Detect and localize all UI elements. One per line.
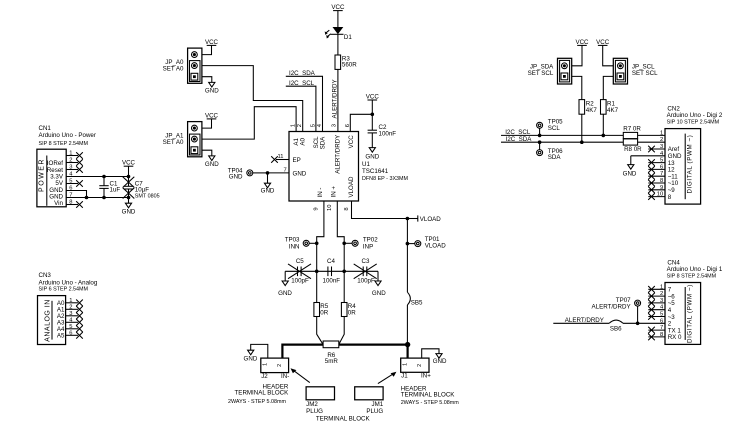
power VCC above JP_A0 <box>205 39 219 46</box>
svg-text:DFN8 EP - 3X3MM: DFN8 EP - 3X3MM <box>362 176 409 182</box>
svg-text:560R: 560R <box>342 62 357 69</box>
svg-text:9: 9 <box>313 207 319 210</box>
resistor R5 <box>314 303 329 317</box>
capacitor C4 <box>323 258 341 285</box>
wire R3 to U1 pin3 (ALERT/DRDY) <box>337 69 339 131</box>
wire VLOAD down to SB5 <box>406 219 408 293</box>
wire R4 to R6 right (kelvin) <box>339 317 344 345</box>
ground below C7 <box>122 198 136 216</box>
wire thick rail left of R6 <box>282 345 323 359</box>
CN3 pin 6 <box>66 331 83 339</box>
net label I2C_SCL (left) <box>286 80 316 132</box>
svg-text:PLUG: PLUG <box>306 408 323 415</box>
node U1 GND junction <box>266 171 270 175</box>
CN4 pin 4 <box>648 305 665 313</box>
J2 annotation text <box>228 383 289 405</box>
svg-text:VCC: VCC <box>348 135 355 149</box>
node VLOAD junction <box>406 217 410 221</box>
op-amp U1 body <box>289 132 409 202</box>
arrow JM1 to J1 <box>378 372 397 384</box>
svg-text:5: 5 <box>310 124 316 127</box>
CN4 pin 8 <box>648 332 665 340</box>
svg-text:D1: D1 <box>344 34 352 41</box>
svg-text:I2C_SCL: I2C_SCL <box>505 129 531 136</box>
svg-text:GND: GND <box>623 170 637 177</box>
svg-text:VCC: VCC <box>575 39 589 46</box>
test point TP03 <box>285 237 317 251</box>
svg-text:IN -: IN - <box>317 188 324 198</box>
CN1 pin 3 <box>66 165 83 173</box>
node TP05 junction <box>538 134 542 138</box>
svg-text:10µF: 10µF <box>135 186 149 193</box>
wire VCC to JP_A1 pin1 <box>202 119 212 128</box>
resistor R3 <box>335 55 357 69</box>
svg-text:IORef: IORef <box>47 160 63 167</box>
node TP06 junction <box>538 140 542 144</box>
node thick junction at J1 <box>405 342 410 347</box>
svg-text:2WAYS - STEP 5.08mm: 2WAYS - STEP 5.08mm <box>228 399 287 405</box>
node GND/C7 junction <box>127 196 131 200</box>
svg-text:4K7: 4K7 <box>586 107 598 114</box>
node TP01 junction <box>406 242 410 246</box>
wire D1 to R3 <box>337 34 339 55</box>
test point TP06 <box>537 142 564 161</box>
CN4 pin 2 <box>648 291 665 299</box>
svg-text:0R: 0R <box>348 310 356 317</box>
node TP02 junction <box>342 242 346 246</box>
wire JP_A0 pin3 to ground <box>202 77 212 83</box>
svg-text:J2: J2 <box>261 373 268 380</box>
svg-text:J1: J1 <box>401 373 408 380</box>
U1 pin 3 ALERT/DRDY <box>331 124 341 174</box>
connector CN2 title <box>667 105 723 125</box>
U1 pin 7 GND <box>268 168 307 178</box>
svg-text:SB6: SB6 <box>610 326 622 333</box>
svg-text:GND: GND <box>293 170 307 177</box>
svg-text:C4: C4 <box>327 258 335 265</box>
connector CN4 title <box>667 259 723 279</box>
svg-text:GND: GND <box>433 358 447 365</box>
wire CN1 pin6 jog to GND rail <box>66 191 86 198</box>
CN3 pin 5 <box>66 324 83 332</box>
capacitor C7 (not fitted) <box>123 177 160 200</box>
connector CN3 title <box>39 272 98 292</box>
svg-text:2: 2 <box>277 364 283 367</box>
ground below U1 GND pin <box>261 173 275 195</box>
svg-text:DIGITAL (PWM ~): DIGITAL (PWM ~) <box>687 284 694 343</box>
test point TP07 <box>592 297 641 323</box>
svg-text:R8 0R: R8 0R <box>624 146 642 153</box>
test point TP05 <box>537 118 564 135</box>
svg-text:IN-: IN- <box>281 373 289 380</box>
CN2 pin 6 <box>648 164 665 172</box>
svg-text:VCC: VCC <box>331 4 345 11</box>
CN1 pin 2 <box>66 158 83 166</box>
wire JP_SDA pin2 to R2 <box>572 76 582 99</box>
CN4 pin 7 <box>648 325 665 333</box>
svg-text:RX 0: RX 0 <box>668 334 682 341</box>
svg-text:A0: A0 <box>300 137 307 145</box>
connector CN1 title <box>39 125 96 147</box>
svg-text:SET SCL: SET SCL <box>632 70 658 77</box>
wire J2 pin1 to ground <box>251 344 268 358</box>
U1 pin 4 SDA <box>317 123 327 149</box>
svg-text:VCC: VCC <box>122 160 136 167</box>
svg-text:1: 1 <box>263 363 269 366</box>
svg-text:100pF: 100pF <box>291 278 309 285</box>
svg-text:TERMINAL BLOCK: TERMINAL BLOCK <box>401 392 456 399</box>
power VCC symbol above C7 <box>122 160 136 177</box>
capacitor C1 <box>99 177 120 198</box>
node 3.3V/C1 junction <box>102 175 106 179</box>
wire 3.3V rail from CN1 pin4 <box>66 176 128 178</box>
wire U1 VLOAD to the right <box>352 201 408 219</box>
svg-text:TERMINAL BLOCK: TERMINAL BLOCK <box>235 390 290 397</box>
node VCC/C2 junction <box>371 113 375 117</box>
svg-text:SDA: SDA <box>548 154 562 161</box>
wire SB5 to thick junction <box>406 305 408 345</box>
LED D1 <box>325 27 353 41</box>
jumper JP_A0 body <box>163 48 202 83</box>
svg-text:GND: GND <box>365 153 379 160</box>
ground left of C5 <box>278 271 292 297</box>
CN1 pin 7 <box>69 193 72 199</box>
power VCC right of U1 <box>366 93 380 100</box>
wire I2C_SDA bus <box>501 141 623 143</box>
capacitor C2 <box>368 114 397 147</box>
shunt resistor R6 <box>323 341 339 365</box>
svg-text:2: 2 <box>417 364 423 367</box>
node pin6/pin7 junction <box>85 196 89 200</box>
svg-text:SCL: SCL <box>548 125 561 132</box>
CN2 pin 1 <box>660 130 663 136</box>
U1 pin 6 VCC <box>345 124 355 148</box>
svg-text:JM2: JM2 <box>306 401 318 408</box>
svg-text:100pF: 100pF <box>357 278 375 285</box>
capacitor C5 (not fitted) <box>288 258 311 285</box>
wire VCC to JP_SDA pin1 <box>572 45 582 65</box>
svg-text:DIGITAL (PWM ~): DIGITAL (PWM ~) <box>687 135 694 194</box>
ground below C2 <box>365 148 379 161</box>
wire thick rail right of R6 <box>339 344 408 346</box>
connector CN1 body <box>37 149 66 207</box>
wire VCC to JP_A0 pin1 <box>202 45 212 54</box>
capacitor C3 (not fitted) <box>354 258 377 285</box>
wire JP_A0 pin2 to U1 A0 <box>202 66 303 132</box>
wire J1 pin2 to ground <box>422 349 439 358</box>
svg-text:Arduino Uno - Digi 2: Arduino Uno - Digi 2 <box>667 112 723 119</box>
svg-text:Arduino Uno - Power: Arduino Uno - Power <box>39 132 96 139</box>
CN3 pin 3 <box>66 311 83 319</box>
arrow JM2 to J2 <box>291 368 310 382</box>
power VCC above D1 <box>331 4 345 11</box>
CN2 pin 4 <box>631 151 665 157</box>
svg-text:1: 1 <box>660 130 663 136</box>
U1 pin 9 IN- <box>313 188 324 211</box>
U1 pin 8 VLOAD <box>344 176 355 211</box>
svg-text:SIP 8 STEP 2.54MM: SIP 8 STEP 2.54MM <box>39 141 89 147</box>
resistor R2 <box>579 100 597 115</box>
svg-text:SIP 10 STEP 2.54MM: SIP 10 STEP 2.54MM <box>667 119 720 125</box>
CN1 pin 1 <box>66 151 83 159</box>
resistor R8 <box>623 139 665 153</box>
svg-text:10: 10 <box>327 205 333 211</box>
jumper JP_SDA body <box>528 58 572 84</box>
CN2 pin 9 <box>648 185 665 193</box>
svg-text:GND: GND <box>229 173 243 180</box>
svg-text:100nF: 100nF <box>323 278 341 285</box>
svg-text:VCC: VCC <box>205 39 219 46</box>
svg-text:VLOAD: VLOAD <box>425 243 447 250</box>
svg-text:2: 2 <box>660 137 663 143</box>
resistor R4 <box>341 303 356 317</box>
CN2 pin 10 <box>648 192 665 200</box>
ground at CN2 pin4 <box>623 165 637 178</box>
svg-text:C5: C5 <box>296 258 304 265</box>
wire filter rail <box>285 270 378 272</box>
svg-text:CN3: CN3 <box>39 272 52 279</box>
U1 pin 1 A1 <box>291 124 301 146</box>
wire VCC to D1 anode <box>337 11 339 27</box>
svg-text:GND: GND <box>205 88 219 95</box>
power VCC above JP_SCL <box>596 39 610 46</box>
svg-text:INP: INP <box>363 244 373 251</box>
CN2 pin 8 <box>648 178 665 186</box>
wire I2C_SCL bus <box>501 134 623 136</box>
wire JP_SCL pin2 to R1 <box>603 76 613 99</box>
svg-text:R7 0R: R7 0R <box>623 126 641 133</box>
svg-text:VLOAD: VLOAD <box>348 176 355 198</box>
CN3 pin 1 <box>66 298 83 306</box>
svg-text:SMT 0805: SMT 0805 <box>135 193 160 199</box>
U1 pin 5 SCL <box>310 124 320 148</box>
svg-text:2WAYS - STEP 5.08mm: 2WAYS - STEP 5.08mm <box>401 400 460 406</box>
svg-text:EP: EP <box>293 157 301 164</box>
svg-text:U1: U1 <box>362 161 370 168</box>
svg-text:INN: INN <box>289 244 300 251</box>
J1 annotation text <box>401 385 460 406</box>
CN1 pin 5 <box>66 179 83 187</box>
svg-text:1: 1 <box>403 363 409 366</box>
svg-text:1uF: 1uF <box>110 186 121 193</box>
svg-text:SDA: SDA <box>319 136 326 150</box>
CN2 pin 2 <box>660 137 663 143</box>
svg-text:TERMINAL BLOCK: TERMINAL BLOCK <box>316 415 371 422</box>
connector CN2 body <box>665 129 701 205</box>
wire R5 to R6 left (kelvin) <box>317 317 323 345</box>
svg-text:ALERT/DRDY: ALERT/DRDY <box>334 135 341 174</box>
svg-text:GND: GND <box>205 161 219 168</box>
ground below JP_A0 <box>205 82 219 94</box>
svg-text:Vin: Vin <box>54 200 63 207</box>
wire GND rail from CN1 pin7 <box>66 197 128 199</box>
CN1 pin 6 <box>69 186 72 192</box>
svg-text:GND: GND <box>244 356 258 363</box>
svg-text:GND: GND <box>278 290 292 297</box>
CN2 pin 7 <box>648 171 665 179</box>
svg-text:8: 8 <box>668 194 672 201</box>
svg-text:5mR: 5mR <box>325 358 339 365</box>
test point TP02 <box>344 237 378 251</box>
svg-text:VCC: VCC <box>596 39 610 46</box>
power VCC above JP_A1 <box>205 112 219 119</box>
resistor R7 <box>623 126 665 139</box>
CN1 pin 4 <box>69 172 73 178</box>
ground below JP_A1 <box>205 156 219 168</box>
test point TP01 <box>407 236 446 249</box>
wire CN2 pin4 to ground <box>630 156 632 165</box>
svg-text:IN+: IN+ <box>421 373 431 380</box>
svg-text:SET SCL: SET SCL <box>528 70 554 77</box>
solder bridge SB5 <box>407 292 423 306</box>
CN4 pin 3 <box>648 298 665 306</box>
svg-text:C3: C3 <box>362 258 370 265</box>
U1 pin 11 EP (no connect) <box>271 154 301 164</box>
CN2 pin 5 <box>648 158 665 166</box>
svg-text:8: 8 <box>344 207 350 210</box>
node C4/INP junction <box>342 270 346 274</box>
solder bridge SB6 <box>609 320 623 333</box>
test point TP04 <box>228 167 268 180</box>
wire R2 to SDA line <box>581 114 583 142</box>
svg-text:100nF: 100nF <box>379 131 397 138</box>
svg-text:I2C_SDA: I2C_SDA <box>506 136 533 143</box>
jumper JP_A1 body <box>163 122 202 157</box>
svg-text:1: 1 <box>291 124 297 127</box>
terminal block J2 body <box>261 358 289 380</box>
node C4/INN junction <box>315 270 319 274</box>
CN4 pin 1 <box>648 284 665 292</box>
node TP03 junction <box>315 242 319 246</box>
svg-text:4: 4 <box>317 123 323 127</box>
svg-text:VLOAD: VLOAD <box>420 216 442 223</box>
CN4 pin 5 <box>648 312 665 320</box>
svg-text:ALERT/DRDY: ALERT/DRDY <box>331 79 338 118</box>
wire VCC to U1 pin6 and C2 <box>371 100 373 114</box>
svg-text:Arduino Uno - Analog: Arduino Uno - Analog <box>39 279 98 286</box>
svg-text:PLUG: PLUG <box>366 408 383 415</box>
wire ALERT/DRDY to CN4 pin6 <box>553 322 609 324</box>
CN2 pin 3 <box>648 144 665 152</box>
svg-text:SET A0: SET A0 <box>163 65 184 72</box>
wire U1 IN- down with jog <box>317 201 324 303</box>
node 3.3V/C7 junction <box>127 175 131 179</box>
U1 pin 2 A0 <box>297 124 307 146</box>
CN3 pin 4 <box>66 318 83 326</box>
CN1 pin 8 <box>66 200 83 208</box>
CN3 pin 2 <box>66 305 83 313</box>
power VCC above JP_SDA <box>575 39 589 46</box>
svg-text:0R: 0R <box>320 310 328 317</box>
svg-text:ALERT/DRDY: ALERT/DRDY <box>565 317 604 324</box>
svg-text:TSC1641: TSC1641 <box>362 168 389 175</box>
net label VLOAD with tick <box>407 215 441 223</box>
net label I2C_SDA (left) <box>286 70 323 132</box>
svg-text:SIP 8 STEP 2.54MM: SIP 8 STEP 2.54MM <box>667 273 717 279</box>
svg-text:IN +: IN + <box>331 186 338 198</box>
svg-text:JM1: JM1 <box>371 401 383 408</box>
wire U1 IN+ down with jog <box>337 201 344 303</box>
node TP07 junction <box>636 322 640 326</box>
connector CN4 body <box>665 283 701 345</box>
svg-text:CN1: CN1 <box>39 125 52 132</box>
svg-text:2: 2 <box>297 124 303 127</box>
svg-text:ALERT/DRDY: ALERT/DRDY <box>592 303 631 310</box>
svg-text:VCC: VCC <box>366 93 380 100</box>
plug JM1 body <box>355 387 384 415</box>
jumper JP_SCL body <box>613 58 658 84</box>
node R2/SDA junction <box>580 140 584 144</box>
svg-text:4K7: 4K7 <box>607 107 619 114</box>
svg-text:ANALOG IN: ANALOG IN <box>44 299 51 342</box>
resistor R1 <box>601 100 619 115</box>
node GND/C1 junction <box>102 196 106 200</box>
svg-text:A5: A5 <box>57 333 65 340</box>
CN4 pin 6 <box>660 318 663 324</box>
connector CN3 body <box>38 296 66 345</box>
svg-text:SET A0: SET A0 <box>163 139 184 146</box>
svg-text:VCC: VCC <box>205 112 219 119</box>
svg-text:POWER: POWER <box>39 158 46 192</box>
svg-text:GND: GND <box>122 208 136 215</box>
wire JP_A1 pin2 to U1 A1 <box>202 107 296 139</box>
node R1/SCL junction <box>602 134 606 138</box>
svg-text:SIP 6 STEP 2.54MM: SIP 6 STEP 2.54MM <box>39 287 89 293</box>
svg-text:SB5: SB5 <box>411 299 423 306</box>
terminal block J1 body <box>401 358 431 380</box>
svg-text:GND: GND <box>372 290 386 297</box>
wire R1 to SCL line <box>602 114 604 135</box>
ground right of C3 <box>372 271 386 297</box>
U1 pin 10 IN+ <box>327 186 338 211</box>
svg-text:3: 3 <box>331 124 337 127</box>
ground at J2 pin1 <box>244 350 258 363</box>
wire thick down to J1 <box>407 345 409 359</box>
ground at J1 pin2 <box>433 354 447 366</box>
wire VCC to JP_SCL pin1 <box>603 45 614 65</box>
plug JM2 body <box>306 387 334 415</box>
svg-text:GND: GND <box>261 187 275 194</box>
svg-text:Arduino Uno - Digi 1: Arduino Uno - Digi 1 <box>667 266 723 273</box>
wire JP_A1 pin3 to ground <box>202 150 212 156</box>
